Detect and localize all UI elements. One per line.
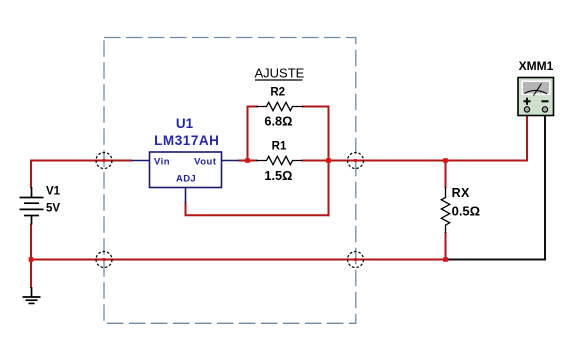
svg-text:V1: V1 [46,186,61,198]
svg-text:LM317AH: LM317AH [154,133,219,148]
svg-text:0.5Ω: 0.5Ω [452,204,481,219]
svg-text:ADJ: ADJ [176,174,196,185]
svg-text:Vin: Vin [154,156,170,167]
svg-text:5V: 5V [46,203,60,215]
svg-text:Vout: Vout [194,156,217,167]
svg-text:RX: RX [452,186,470,200]
svg-text:6.8Ω: 6.8Ω [264,113,292,128]
svg-text:AJUSTE: AJUSTE [255,66,305,81]
svg-text:XMM1: XMM1 [519,59,554,73]
svg-text:1.5Ω: 1.5Ω [264,168,292,183]
svg-text:R1: R1 [272,140,287,152]
svg-text:R2: R2 [270,87,285,99]
svg-text:U1: U1 [176,116,194,131]
